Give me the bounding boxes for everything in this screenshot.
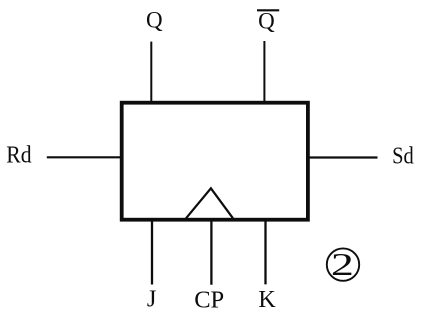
wire Rd pin: [47, 156, 122, 158]
wire Sd pin: [308, 156, 378, 158]
svg-text:Q: Q: [146, 8, 163, 33]
clock edge triangle: [186, 188, 233, 218]
svg-text:K: K: [258, 287, 276, 313]
flip-flop body U1: [122, 103, 308, 220]
wire J pin: [151, 220, 153, 285]
wire Q pin: [150, 42, 152, 103]
wire Q-bar pin: [263, 41, 265, 103]
svg-text:Sd: Sd: [392, 144, 414, 170]
svg-text:Q: Q: [258, 8, 275, 33]
wire CP pin: [210, 220, 212, 285]
wire K pin: [264, 220, 266, 285]
circled number 2: [327, 248, 359, 280]
svg-text:J: J: [147, 286, 157, 313]
overbar of Q-bar: [257, 9, 279, 11]
svg-text:Rd: Rd: [6, 142, 31, 168]
svg-text:CP: CP: [194, 287, 224, 314]
svg-text:2: 2: [331, 247, 354, 282]
